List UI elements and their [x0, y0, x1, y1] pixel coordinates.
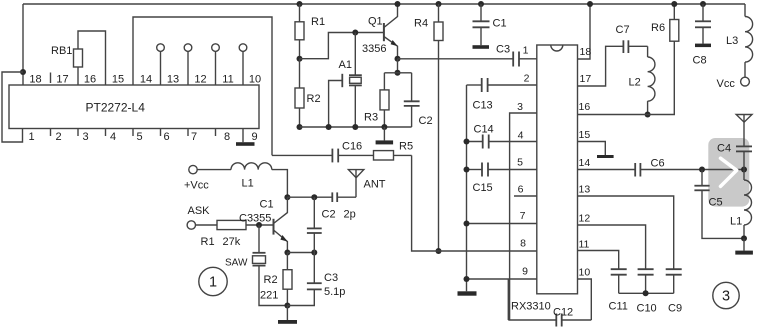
wire pin8 RX3310 to R5: [412, 155, 537, 251]
ground C1: [473, 45, 490, 49]
capacitor C10: [638, 269, 654, 293]
terminal circle pin13: [157, 44, 165, 85]
wire pin16 RX3310 to R6: [578, 41, 675, 114]
capacitor C1: [473, 4, 490, 45]
node A1 electrode bottom: [326, 124, 332, 130]
svg-text:11: 11: [222, 74, 233, 86]
node L1 C5 ground: [741, 235, 747, 241]
wire emitter drop to R3/C2: [397, 59, 399, 73]
capacitor C8: [695, 4, 711, 44]
svg-text:8: 8: [520, 238, 526, 250]
terminal Vcc: [741, 77, 750, 86]
node Q1 collector rail: [395, 1, 401, 7]
svg-text:C14: C14: [474, 124, 494, 136]
svg-text:221: 221: [260, 290, 278, 302]
svg-text:C7: C7: [616, 24, 630, 36]
svg-text:10: 10: [249, 74, 261, 86]
resistor R4: [434, 4, 443, 251]
inductor L1 output: [744, 170, 752, 239]
node C5 tap: [699, 167, 705, 173]
svg-text:ASK: ASK: [188, 205, 211, 217]
wire pin10 RX3310 to C12: [578, 279, 592, 320]
capacitor C12: [508, 314, 591, 327]
capacitor C2 2p series: [332, 192, 356, 202]
ground C8: [695, 44, 711, 48]
svg-text:C16: C16: [342, 141, 362, 153]
node C8 rail: [700, 1, 706, 7]
svg-text:18: 18: [29, 74, 41, 86]
svg-text:C15: C15: [473, 182, 493, 194]
node R1-R2 junction: [297, 56, 303, 62]
node C10 common: [643, 290, 649, 296]
pin 9 lead PT2272: [242, 129, 244, 143]
node R3 bottom: [381, 124, 387, 130]
svg-text:4: 4: [518, 130, 524, 142]
wire oscillator bottom rail: [300, 126, 412, 128]
svg-text:4: 4: [110, 131, 116, 143]
capacitor C16: [332, 149, 373, 163]
pin numbers PT2272 bottom: [28, 131, 257, 143]
node SAW tap: [256, 222, 262, 228]
transistor Q1 3356: [384, 4, 398, 59]
resistor R5: [374, 151, 412, 160]
svg-text:11: 11: [579, 239, 590, 251]
svg-text:A1: A1: [339, 59, 352, 71]
node pin4 bus: [464, 139, 470, 145]
ground transmitter: [278, 306, 297, 324]
wire collector bar: [287, 196, 332, 198]
svg-text:ANT: ANT: [364, 179, 386, 191]
svg-text:6: 6: [518, 184, 524, 196]
svg-text:10: 10: [579, 267, 591, 279]
node feedback tap: [311, 250, 317, 256]
svg-text:1: 1: [523, 45, 529, 57]
svg-text:1: 1: [28, 131, 34, 143]
svg-text:C13: C13: [473, 100, 493, 112]
svg-text:12: 12: [194, 74, 206, 86]
wire emitter bar: [287, 252, 314, 254]
electrode A1 side plate: [329, 74, 343, 127]
ground pin15: [597, 155, 614, 158]
wire pin12 RX3310 to C10: [578, 225, 646, 269]
node rail R1: [297, 1, 303, 7]
svg-text:8: 8: [224, 131, 230, 143]
pin numbers RX3310 right: [579, 46, 592, 279]
svg-text:16: 16: [84, 74, 96, 86]
capacitor C3 5.1p: [287, 253, 321, 306]
terminal ASK: [187, 221, 195, 229]
svg-text:Q1: Q1: [368, 16, 383, 28]
ground bar pin9 PT2272: [236, 142, 255, 146]
svg-text:7: 7: [191, 131, 197, 143]
svg-text:15: 15: [112, 74, 124, 86]
svg-text:14: 14: [140, 74, 152, 86]
wire top supply rail: [23, 3, 745, 5]
svg-text:Vcc: Vcc: [717, 78, 736, 90]
node R4 rail: [436, 1, 442, 7]
inductor L1 input: [231, 163, 272, 170]
pin tick 18|17 top: [50, 73, 52, 84]
svg-text:R1: R1: [201, 236, 215, 248]
svg-text:7: 7: [520, 210, 526, 222]
svg-text:C11: C11: [609, 301, 628, 313]
wire pin14 RX3310: [578, 169, 636, 171]
svg-text:R2: R2: [307, 93, 321, 105]
node pin18 rail: [587, 1, 593, 7]
wire pin3 RX3310 to C12 bus: [510, 113, 537, 320]
svg-text:L1: L1: [242, 178, 254, 190]
svg-text:14: 14: [579, 157, 591, 169]
node pin5 bus: [464, 167, 470, 173]
wire wrap-around pin18 to pin1: [2, 72, 23, 142]
resistor R1 27k: [217, 220, 274, 229]
resistor R6: [670, 4, 679, 41]
node marker 3: [713, 282, 739, 308]
antenna right: [736, 115, 752, 147]
inductor L3: [745, 4, 753, 77]
svg-text:RX3310: RX3310: [511, 301, 551, 313]
wire pin15 RX3310: [578, 142, 606, 156]
resistor R2 221: [283, 253, 292, 306]
node marker 1: [199, 267, 227, 295]
node R2 bottom: [297, 124, 303, 130]
antenna ANT: [348, 170, 363, 198]
node collector C3355: [284, 194, 290, 200]
svg-text:3: 3: [517, 101, 523, 113]
wire pin7 RX3310: [467, 223, 537, 225]
carousel overlay panel: [708, 138, 749, 207]
wire pin11 RX3310 to C11: [578, 251, 619, 270]
wire emitter to C3 and pin1: [398, 58, 514, 60]
svg-text:L1: L1: [730, 216, 742, 228]
svg-text:5: 5: [136, 131, 142, 143]
wire pin5 RX3310: [488, 169, 537, 171]
capacitor C9: [666, 269, 682, 293]
svg-text:C5: C5: [709, 197, 723, 209]
node C1 rail: [478, 1, 484, 7]
resistor R3: [380, 73, 389, 127]
wire C9 C10 C11 common: [619, 292, 674, 294]
svg-text:27k: 27k: [223, 236, 241, 248]
ground oscillator: [376, 127, 394, 144]
node junction pin18: [20, 69, 26, 75]
node antenna line end: [741, 167, 747, 173]
svg-text:12: 12: [579, 213, 591, 225]
node C2 tap: [311, 194, 317, 200]
capacitor C6: [635, 163, 744, 177]
svg-text:R4: R4: [414, 18, 428, 30]
node R3 C2 top: [395, 70, 401, 76]
svg-text:17: 17: [580, 73, 592, 85]
node Q1 base node: [352, 30, 358, 36]
svg-text:C2: C2: [322, 209, 336, 221]
capacitor C3 series: [513, 52, 537, 67]
node pin9 bus: [464, 276, 470, 282]
IC U2 PT2272-L4 body: [9, 85, 259, 129]
wire Vcc to L1: [197, 169, 231, 171]
svg-text:2p: 2p: [344, 209, 356, 221]
svg-text:3356: 3356: [362, 43, 386, 55]
svg-text:L3: L3: [726, 35, 738, 47]
IC U3 RX3310 body: [537, 45, 578, 294]
wire RB1 loop to pin15 lead: [78, 31, 106, 85]
svg-text:R1: R1: [311, 16, 325, 28]
svg-text:RB1: RB1: [51, 45, 72, 57]
capacitor C2 oscillator: [404, 73, 420, 127]
svg-text:18: 18: [580, 46, 592, 58]
terminal circle pin10: [239, 44, 247, 85]
pin numbers PT2272 top: [29, 74, 261, 86]
ground L1 C5: [735, 238, 753, 254]
wire data-pin frame: [133, 17, 272, 155]
resistor R1: [295, 4, 304, 59]
pin numbers RX3310 left: [517, 45, 530, 278]
svg-text:5.1p: 5.1p: [324, 286, 345, 298]
svg-text:C4: C4: [717, 143, 731, 155]
capacitor C5: [694, 170, 744, 239]
svg-text:17: 17: [56, 74, 68, 86]
svg-text:C3: C3: [496, 44, 510, 56]
wire pin13 RX3310 to C9: [578, 196, 674, 269]
svg-text:16: 16: [579, 101, 591, 113]
svg-text:C2: C2: [419, 115, 433, 127]
capacitor C11: [611, 269, 627, 293]
wire C16 R5 line from PT2272 frame: [272, 154, 332, 156]
node Q1 emitter: [395, 56, 401, 62]
svg-text:6: 6: [163, 131, 169, 143]
svg-text:2: 2: [524, 73, 530, 85]
wire R1 junction to Q1 base: [300, 33, 384, 59]
wire pin17 RX3310 to C7: [578, 46, 623, 86]
crystal A1: [349, 33, 362, 128]
svg-text:1: 1: [209, 275, 217, 291]
node R4 bottom pin8 line: [436, 248, 442, 254]
svg-text:2: 2: [55, 131, 61, 143]
node R6 rail: [671, 1, 677, 7]
svg-text:C1: C1: [493, 18, 507, 30]
capacitor C15: [467, 163, 489, 177]
capacitor C7: [623, 40, 647, 53]
svg-text:C10: C10: [637, 303, 657, 315]
svg-text:9: 9: [251, 131, 257, 143]
wire pin18 RX3310 to rail: [578, 4, 591, 59]
svg-text:R5: R5: [399, 141, 413, 153]
svg-text:13: 13: [579, 184, 591, 196]
inductor L2: [648, 46, 655, 114]
node R2 bottom: [284, 303, 290, 309]
capacitor feedback upper: [307, 197, 322, 252]
svg-text:15: 15: [579, 129, 591, 141]
svg-text:3: 3: [82, 131, 88, 143]
wire ASK to R1: [196, 224, 218, 226]
node A1 bottom: [352, 124, 358, 130]
wire pin2 RX3310: [488, 84, 537, 86]
node L2 pin16 junction: [645, 112, 651, 118]
resistor RB1: [74, 49, 83, 85]
wire R3 C2 top bar: [384, 72, 411, 74]
capacitor C4: [736, 146, 752, 169]
svg-text:+Vcc: +Vcc: [184, 180, 209, 192]
svg-text:R3: R3: [364, 112, 378, 124]
terminal +Vcc: [189, 165, 197, 173]
svg-text:13: 13: [167, 74, 179, 86]
svg-text:R2: R2: [264, 274, 278, 286]
svg-text:SAW: SAW: [225, 258, 248, 269]
svg-text:C8: C8: [693, 55, 707, 67]
wire pin4 RX3310: [489, 141, 537, 143]
svg-text:5: 5: [517, 157, 523, 169]
terminal circle pin12: [184, 44, 192, 85]
svg-text:C12: C12: [553, 307, 573, 319]
wire pin9 RX3310: [467, 278, 537, 280]
svg-text:R6: R6: [651, 22, 665, 34]
svg-text:C3355: C3355: [239, 213, 271, 225]
svg-text:C1: C1: [260, 199, 274, 211]
carousel chevron next: [721, 158, 737, 186]
node pin7 bus: [464, 221, 470, 227]
ground left bus: [458, 291, 477, 295]
svg-text:L2: L2: [629, 77, 641, 89]
svg-text:9: 9: [522, 266, 528, 278]
resistor R2: [295, 59, 304, 127]
node emitter C3355: [284, 250, 290, 256]
transistor Q2 C3355: [274, 197, 288, 252]
wire L1 to collector: [272, 170, 288, 198]
capacitor C13: [467, 78, 488, 92]
pin ticks bottom PT2272: [51, 129, 216, 137]
svg-text:3: 3: [722, 289, 730, 305]
svg-text:C9: C9: [668, 303, 682, 315]
capacitor C14: [467, 135, 489, 149]
wire pin6 stub RX3310: [514, 195, 537, 197]
svg-text:C3: C3: [324, 272, 338, 284]
svg-text:C6: C6: [651, 158, 665, 170]
wire C12 riser to pin9: [507, 279, 509, 320]
SAW resonator: [253, 225, 288, 306]
terminal circle pin11: [212, 44, 220, 85]
svg-text:PT2272-L4: PT2272-L4: [86, 101, 146, 115]
wire pin18 riser PT2272: [22, 4, 24, 85]
wire left bypass bus: [466, 85, 468, 291]
